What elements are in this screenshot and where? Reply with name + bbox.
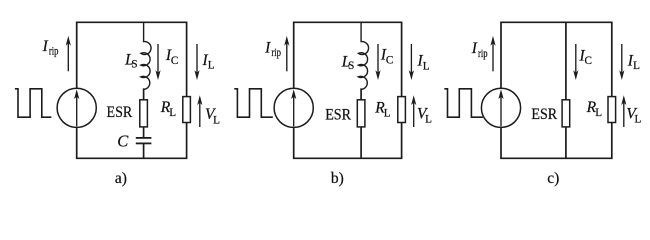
svg-text:S: S: [131, 58, 137, 70]
svg-text:C: C: [386, 54, 393, 66]
svg-text:c): c): [547, 170, 559, 187]
svg-text:L: L: [384, 107, 391, 119]
wire middle branch lower (a): [143, 88, 145, 138]
current source (b): [274, 88, 313, 127]
resistor ESR (b): [357, 100, 365, 127]
svg-text:L: L: [213, 114, 220, 126]
label IC (c): [579, 47, 592, 67]
wire left (b): [293, 22, 295, 158]
svg-text:ESR: ESR: [531, 106, 557, 123]
svg-text:rip: rip: [478, 48, 488, 60]
arrow IL (c): [619, 44, 624, 80]
arrow VL (c): [621, 95, 626, 127]
label VL (a): [205, 106, 220, 126]
wire middle branch bottom (a): [143, 143, 145, 158]
current source (a): [57, 88, 96, 127]
svg-text:L: L: [633, 60, 640, 72]
svg-text:L: L: [425, 114, 432, 126]
svg-text:ESR: ESR: [107, 104, 133, 121]
label VL (c): [626, 105, 641, 125]
svg-text:rip: rip: [49, 46, 59, 58]
wire top (a): [76, 21, 187, 23]
arrow Irip (c): [490, 36, 495, 71]
capacitor C (a): [136, 138, 152, 144]
arrow VL (a): [197, 95, 202, 127]
svg-text:S: S: [348, 60, 354, 72]
arrow IC (a): [155, 44, 160, 80]
resistor RL (a): [183, 97, 191, 123]
label Irip (a): [42, 38, 59, 58]
svg-text:I: I: [264, 39, 271, 56]
square-wave source symbol (c): [444, 89, 483, 117]
resistor RL (c): [608, 97, 616, 123]
resistor ESR (c): [562, 100, 570, 127]
svg-text:rip: rip: [271, 47, 281, 59]
resistor RL (b): [398, 97, 406, 123]
svg-text:ESR: ESR: [325, 106, 351, 123]
label IC (b): [380, 47, 393, 67]
wire top (c): [500, 21, 612, 23]
label RL (c): [586, 99, 603, 119]
label LS (b): [341, 53, 355, 72]
wire bottom (c): [500, 157, 612, 159]
svg-text:b): b): [331, 170, 344, 187]
svg-text:L: L: [423, 60, 430, 72]
svg-text:L: L: [635, 114, 642, 126]
inductor LS (a): [141, 22, 151, 89]
arrow VL (b): [411, 95, 416, 127]
svg-text:C: C: [171, 55, 178, 67]
wire right (c): [611, 22, 613, 158]
svg-text:I: I: [471, 40, 478, 57]
wire middle branch lower (b): [360, 88, 362, 158]
resistor ESR (a): [140, 100, 148, 127]
svg-text:C: C: [585, 55, 592, 67]
wire middle branch (c): [565, 22, 567, 158]
arrow IL (a): [194, 44, 199, 80]
wire left (a): [76, 22, 78, 158]
label Irip (c): [471, 40, 488, 60]
square-wave source symbol (b): [234, 89, 272, 117]
label RL (b): [374, 99, 391, 119]
label RL (a): [160, 99, 177, 119]
inductor LS (b): [358, 22, 368, 89]
wire bottom (b): [293, 157, 403, 159]
svg-text:L: L: [169, 107, 176, 119]
svg-text:L: L: [208, 60, 215, 72]
svg-text:C: C: [117, 132, 129, 151]
wire top (b): [293, 21, 403, 23]
wire right (b): [401, 22, 403, 158]
wire right (a): [186, 22, 188, 158]
label IL (b): [417, 53, 430, 73]
arrow Irip (b): [284, 36, 289, 71]
svg-text:a): a): [115, 170, 127, 187]
arrow IC (c): [573, 44, 578, 80]
arrow IC (b): [375, 44, 380, 80]
square-wave source symbol (a): [15, 89, 52, 117]
wire bottom (a): [76, 157, 187, 159]
label IL (a): [202, 52, 215, 72]
current source (c): [481, 88, 520, 127]
label IL (c): [627, 52, 640, 72]
svg-text:I: I: [42, 38, 49, 55]
label VL (b): [417, 105, 432, 125]
svg-text:L: L: [595, 107, 602, 119]
label Irip (b): [264, 39, 281, 59]
arrow IL (b): [409, 44, 414, 80]
arrow Irip (a): [66, 36, 71, 71]
wire left (c): [500, 22, 502, 158]
label LS (a): [124, 52, 138, 71]
label IC (a): [165, 47, 178, 67]
